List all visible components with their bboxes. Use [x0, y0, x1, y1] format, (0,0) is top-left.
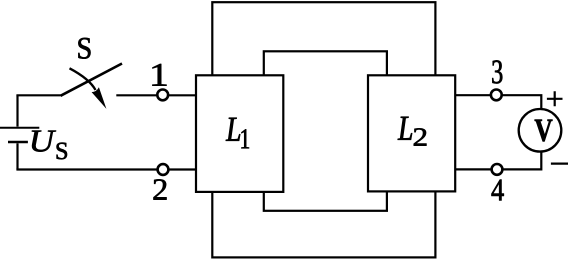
battery US short plate (-) [8, 141, 28, 143]
inductor label L2 : L [398, 117, 412, 140]
wire: terminal 2 to L1 [169, 168, 196, 170]
inductor label L2 : 2 subscript [414, 128, 427, 145]
battery US positive lead wire [16, 95, 18, 126]
wire: terminal 4 to L2 [455, 168, 491, 170]
switch label S [78, 38, 90, 59]
terminal 3 node circle [491, 90, 502, 101]
inductor label L1 : 1 subscript [241, 129, 249, 148]
terminal pin number label 3 [492, 60, 502, 83]
wire: terminal 1 to L1 [168, 94, 196, 96]
wire: L2 to terminal 3 [455, 94, 490, 96]
battery US negative lead wire [16, 143, 18, 169]
transformer core inner loop [264, 51, 387, 211]
switch S actuation arrow arc [70, 68, 96, 90]
source voltage label US : U [32, 131, 56, 152]
voltmeter polarity minus sign [551, 163, 568, 165]
transformer core outer loop [212, 2, 435, 257]
switch S blade [61, 64, 123, 96]
battery US long plate (+) [0, 127, 39, 129]
wire: battery top to switch [16, 94, 60, 96]
inductor L2 (winding box) [368, 75, 455, 191]
terminal 4 node circle [492, 164, 503, 175]
terminal pin number label 4 [491, 180, 503, 201]
voltmeter polarity plus sign [547, 91, 563, 106]
wire: switch to terminal 1 [116, 94, 157, 96]
wire: terminal 3 to voltmeter top [502, 95, 541, 109]
switch S arrowhead [92, 87, 107, 109]
wire: voltmeter bottom to terminal 4 [503, 152, 542, 170]
source voltage label US : S subscript [57, 143, 67, 160]
inductor L1 (winding box) [196, 75, 283, 192]
wire: battery bottom to terminal 2 [16, 168, 157, 170]
inductor label L1 : L [226, 118, 240, 141]
terminal 1 node circle [157, 90, 168, 101]
terminal pin number label 1 [152, 64, 166, 86]
terminal pin number label 2 [154, 179, 167, 199]
terminal 2 node circle [158, 164, 169, 175]
voltmeter label V [535, 120, 553, 142]
voltmeter V body circle [519, 109, 562, 152]
